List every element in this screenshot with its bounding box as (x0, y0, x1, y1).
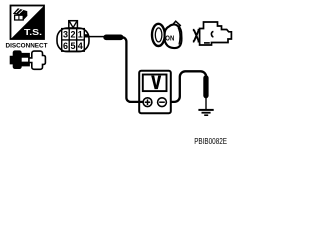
svg-text:5: 5 (70, 41, 75, 51)
svg-text:PBIB0082E: PBIB0082E (194, 136, 227, 146)
svg-text:1: 1 (78, 29, 83, 39)
svg-text:4: 4 (78, 41, 83, 51)
svg-text:2: 2 (70, 29, 75, 39)
svg-text:DISCONNECT: DISCONNECT (6, 42, 49, 49)
svg-text:ON: ON (165, 35, 174, 42)
svg-text:3: 3 (63, 29, 68, 39)
svg-text:6: 6 (63, 41, 68, 51)
svg-text:T.S.: T.S. (24, 27, 42, 37)
